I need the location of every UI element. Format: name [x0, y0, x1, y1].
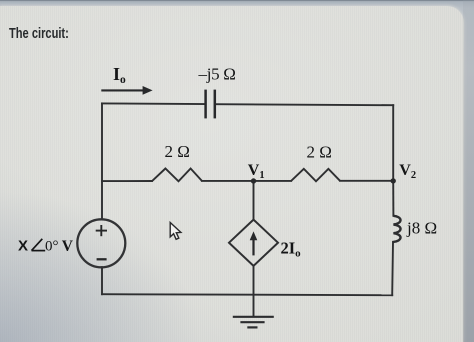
svg-text:X: X: [18, 237, 28, 254]
voltage source VS circle: [77, 219, 125, 267]
angle symbol: [32, 239, 46, 251]
svg-text:2Io: 2Io: [281, 239, 302, 260]
wire middle-center horizontal: [202, 180, 291, 182]
svg-text:j8 Ω: j8 Ω: [406, 219, 437, 238]
capacitor -j5ohm plates: [206, 90, 215, 119]
ground symbol: [233, 317, 274, 328]
wire V1 stem to dependent source: [253, 181, 255, 220]
node V2 dot: [391, 178, 396, 183]
wire dependent source bottom to ground: [253, 266, 255, 316]
current Io arrow: [101, 86, 152, 95]
voltage source plus sign: [96, 225, 107, 236]
voltage source minus sign: [97, 258, 107, 260]
wire top-left horizontal: [102, 102, 205, 105]
wire right vertical lower: [391, 242, 394, 295]
wire left vertical lower: [101, 267, 103, 294]
wire bottom horizontal: [102, 294, 392, 295]
dependent source arrow: [250, 231, 258, 255]
svg-text:V2: V2: [399, 162, 416, 181]
mouse cursor: [170, 223, 181, 240]
resistor R=2ohm left: [152, 169, 202, 182]
wire middle-right horizontal: [340, 180, 393, 182]
wire top-right horizontal: [215, 104, 393, 105]
svg-text:2 Ω: 2 Ω: [165, 142, 190, 161]
svg-text:0°: 0°: [45, 238, 59, 254]
resistor R=2ohm right: [291, 169, 340, 182]
wire right vertical mid: [392, 181, 394, 216]
svg-text:V: V: [62, 238, 74, 255]
node V1 dot: [251, 178, 256, 183]
svg-text:Io: Io: [113, 64, 126, 86]
wire left vertical upper: [101, 103, 103, 219]
svg-text:2 Ω: 2 Ω: [307, 143, 332, 162]
dependent current source diamond: [229, 220, 278, 266]
svg-text:–j5 Ω: –j5 Ω: [198, 64, 236, 83]
inductor j8ohm coil: [393, 216, 400, 242]
wire right vertical upper: [392, 105, 394, 181]
wire middle-left horizontal: [102, 180, 152, 182]
svg-text:V1: V1: [248, 162, 265, 181]
